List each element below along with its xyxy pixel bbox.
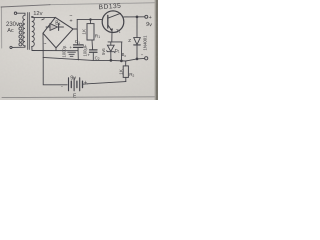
battery 9V cells — [69, 78, 80, 91]
wire emitter down to node — [111, 31, 113, 42]
wire bridge + output to top rail and C1 — [73, 19, 77, 29]
transformer core — [28, 13, 30, 50]
resistor R1 — [87, 24, 94, 40]
wire minus rail down to battery — [43, 57, 67, 84]
transformer secondary winding — [32, 17, 35, 47]
transformer TR1 primary winding — [23, 15, 25, 46]
minus rail wire — [43, 57, 145, 61]
input terminal bottom — [10, 46, 12, 48]
wire bridge bottom vertex stub — [55, 48, 57, 51]
output terminal +9v — [145, 15, 148, 18]
wire R1 bottom to capacitor C2 — [91, 40, 94, 50]
transistor T1 circle — [102, 11, 124, 33]
transistor T1 emitter line with arrow — [108, 25, 112, 31]
wire terminal to transformer primary bottom — [12, 46, 25, 48]
wire battery right lead — [83, 83, 88, 85]
border frame — [1, 3, 157, 98]
bridge internal diode — [46, 26, 64, 28]
ground — [68, 52, 76, 56]
transformer primary loop scribbles — [19, 23, 22, 46]
wire battery plus to R2 — [88, 82, 126, 84]
right edge scan shadow — [156, 0, 158, 100]
wire C2 bottom to minus rail — [92, 52, 94, 60]
wire bridge left vertex down to minus rail — [42, 33, 44, 57]
transistor T1 collector line — [108, 13, 121, 18]
wire secondary bottom to AC rail — [31, 47, 33, 51]
wire terminal to transformer primary top — [17, 13, 25, 15]
diode D2 1N4001 — [134, 38, 141, 45]
junction dots — [136, 16, 138, 18]
node wire at emitter — [108, 41, 122, 43]
input terminal top — [14, 12, 16, 14]
AC rail wire — [32, 50, 78, 52]
resistor R2 — [123, 66, 128, 78]
wire collector to +9v terminal — [124, 16, 145, 18]
tick mark under 12v — [42, 19, 45, 20]
wire node down to minus rail and R2 — [120, 42, 122, 61]
output terminal minus — [145, 57, 148, 60]
paper texture — [0, 0, 1, 1]
zener diode D1 — [110, 42, 112, 45]
wire top rail to transistor base — [77, 18, 102, 20]
resistor R2 stub bottom — [125, 77, 127, 81]
transistor T1 base bar — [107, 15, 109, 28]
wire down to diode D2 — [136, 17, 138, 38]
wire C1 bottom to minus rail — [77, 47, 79, 60]
wire bridge + down to capacitor C1 — [76, 29, 78, 45]
resistor R1 stub top — [90, 20, 92, 24]
bridge rectifier B1 diamond — [43, 17, 73, 47]
capacitor C1 plates — [74, 45, 84, 48]
wire secondary top to bridge — [32, 16, 56, 19]
resistor R2 stub top — [125, 61, 127, 66]
capacitor C2 plates — [90, 50, 98, 52]
